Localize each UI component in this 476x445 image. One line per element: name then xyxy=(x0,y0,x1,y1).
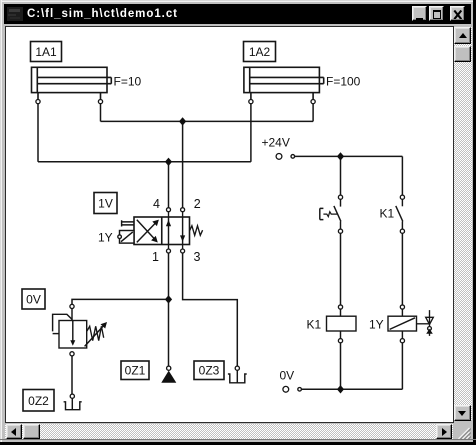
wire coil K1 to 0V rail xyxy=(340,343,342,390)
tank 0Z3 xyxy=(228,366,247,383)
window frame right/bottom dark xyxy=(473,0,476,445)
valve left square crossed arrows xyxy=(137,220,159,243)
svg-text:0Z2: 0Z2 xyxy=(28,394,49,408)
wire junction to relief valve 0V xyxy=(72,299,169,304)
svg-text:F=100: F=100 xyxy=(326,75,361,89)
svg-text:K1: K1 xyxy=(307,318,322,332)
title bar xyxy=(4,4,471,24)
svg-text:1Y: 1Y xyxy=(369,318,384,332)
wire lower bus xyxy=(38,161,251,163)
terminal 0V xyxy=(283,386,302,392)
label 0Z2 xyxy=(23,390,54,412)
v up button xyxy=(454,27,472,44)
label 0Z3 xyxy=(194,361,224,380)
wire valve port 1 to source 0Z1 xyxy=(168,253,170,366)
wire solenoid 1Y to 0V rail xyxy=(401,343,403,390)
contact K1 xyxy=(396,195,405,233)
h thumb xyxy=(23,424,40,440)
terminal +24V xyxy=(276,154,295,160)
wire upper bus to valve port 2 xyxy=(182,121,184,207)
svg-text:1A2: 1A2 xyxy=(249,45,271,59)
title text xyxy=(27,6,327,22)
v thumb xyxy=(454,46,472,63)
label 0Z1 xyxy=(121,361,149,380)
valve port circles top xyxy=(167,208,185,217)
svg-text:0Z3: 0Z3 xyxy=(199,364,220,378)
solenoid coil 1Y xyxy=(388,305,417,343)
svg-text:K1: K1 xyxy=(380,207,395,221)
svg-text:F=10: F=10 xyxy=(114,75,142,89)
svg-text:1A1: 1A1 xyxy=(35,45,57,59)
wire 1A2 left port drop xyxy=(250,104,252,162)
wire rail corner to contact K1 xyxy=(401,156,403,195)
horizontal scrollbar xyxy=(5,424,453,440)
wire valve port 3 to tank 0Z3 xyxy=(183,253,238,366)
svg-text:0Z1: 0Z1 xyxy=(125,364,146,378)
svg-text:1V: 1V xyxy=(98,197,113,211)
size grip xyxy=(453,423,471,439)
svg-text:3: 3 xyxy=(194,250,201,264)
tank 0Z2 xyxy=(64,394,82,410)
switch S1 pushbutton xyxy=(320,195,343,233)
wire switch to coil K1 xyxy=(340,233,342,305)
label 0V xyxy=(22,289,45,309)
cylinder 1A2 xyxy=(244,67,324,103)
wire upper bus xyxy=(101,120,314,122)
h right button xyxy=(436,424,453,440)
junction +24V rail xyxy=(337,152,344,160)
valve port circles bottom xyxy=(167,245,185,254)
svg-text:4: 4 xyxy=(153,197,160,211)
wire +24V junction to switch xyxy=(340,156,342,195)
wire +24V rail xyxy=(295,155,403,157)
junction hydraulic node P xyxy=(165,295,172,303)
junction upper bus xyxy=(179,117,186,125)
solenoid pilot 1Y on valve xyxy=(118,231,134,244)
v down button xyxy=(454,405,471,421)
valve 1V body xyxy=(134,217,190,245)
valve link symbol at 1Y xyxy=(417,310,434,336)
junction 0V rail xyxy=(337,385,344,393)
svg-text:+24V: +24V xyxy=(262,136,290,150)
valve right square flow arrows xyxy=(166,217,185,245)
label 1A2 xyxy=(244,42,276,62)
wire 1A1 left port to lower bus xyxy=(37,104,39,162)
wire lower bus to valve port 4 xyxy=(168,162,170,208)
wire 0V to tank 0Z2 xyxy=(71,356,73,394)
maximize button xyxy=(429,6,444,21)
vertical scrollbar xyxy=(454,27,472,422)
close button xyxy=(450,6,465,21)
svg-text:2: 2 xyxy=(194,197,201,211)
minimize button xyxy=(412,6,427,21)
wire contact K1 to solenoid 1Y xyxy=(401,233,403,305)
label 1V xyxy=(94,193,117,214)
label 1A1 xyxy=(31,42,62,62)
cylinder 1A1 xyxy=(32,67,112,103)
h left button xyxy=(6,424,23,440)
manual override on valve xyxy=(122,220,134,226)
title icon xyxy=(7,7,23,21)
spring return on valve xyxy=(190,226,203,236)
wire 1A2 right port drop xyxy=(312,104,314,122)
svg-text:1: 1 xyxy=(152,250,159,264)
pressure source 0Z1 xyxy=(161,366,176,383)
svg-text:1Y: 1Y xyxy=(98,231,113,245)
relief valve 0V xyxy=(53,304,107,356)
svg-text:0V: 0V xyxy=(26,293,41,307)
window outer frame highlights xyxy=(0,0,476,1)
wire 0V rail xyxy=(301,388,402,390)
junction lower bus xyxy=(165,158,172,166)
svg-text:0V: 0V xyxy=(280,369,295,383)
wire 1A1 right port to upper bus xyxy=(100,104,102,122)
relay coil K1 xyxy=(327,305,357,343)
